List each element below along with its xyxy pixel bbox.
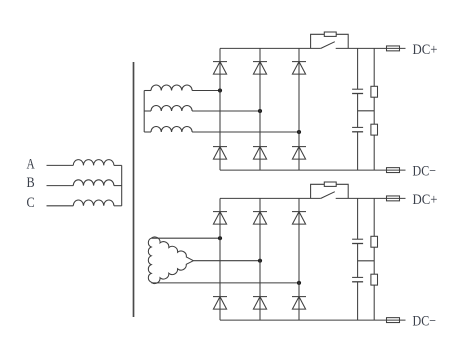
wire phase C lead <box>47 205 74 207</box>
capacitor C2 <box>352 127 363 131</box>
wire secondary winding 1 left stub <box>144 90 151 92</box>
inductor primary winding C <box>73 200 114 206</box>
wire bridge b leg 2 <box>259 198 261 320</box>
terminal upper rectifier DC+ block <box>387 46 400 51</box>
phase label C <box>27 195 35 211</box>
wire primary C to neutral <box>114 205 122 207</box>
capacitor C3 <box>352 239 363 243</box>
terminal upper rectifier DC- block <box>387 168 400 173</box>
wire upper rectifier capacitor branch upper <box>357 48 359 89</box>
node delta phase 3 junction <box>297 281 301 285</box>
wire upper rectifier resistor branch middle <box>373 97 375 124</box>
diode Db6 (lower leg 3) <box>292 297 306 310</box>
switch S2 blade <box>321 192 335 199</box>
wire delta phase 2 to bridge <box>193 260 260 262</box>
switch S1 blade <box>321 42 335 49</box>
wire bridge a leg 3 <box>298 48 300 170</box>
wire secondary winding 3 left stub <box>144 131 151 133</box>
inductor secondary winding L1 <box>151 85 192 91</box>
node delta phase 2 junction <box>258 259 262 263</box>
transformer core <box>133 62 135 317</box>
wire bridge a leg 2 <box>259 48 261 170</box>
diode Db1 (upper leg 1) <box>213 212 227 225</box>
diode Da6 (lower leg 3) <box>292 147 306 160</box>
resistor R6 (balance lower) <box>371 274 378 285</box>
wire upper rectifier capacitor branch middle <box>357 94 359 128</box>
wire lower rectifier precharge loop right <box>336 184 348 198</box>
wire secondary winding 1 to bridge <box>192 90 220 92</box>
resistor R2 (balance upper) <box>371 86 378 97</box>
node secondary phase 3 junction <box>297 130 301 134</box>
wire primary B to neutral <box>114 185 122 187</box>
phase label B <box>27 175 35 191</box>
diode Da2 (upper leg 2) <box>253 62 267 75</box>
svg-text:DC−: DC− <box>413 164 437 180</box>
svg-text:DC−: DC− <box>413 314 437 330</box>
label DC+ (lower rectifier) <box>413 192 438 208</box>
wire lower rectifier capacitor branch upper <box>357 198 359 239</box>
inductor primary winding B <box>73 180 114 186</box>
wire upper rectifier positive bus right <box>336 47 406 49</box>
svg-text:B: B <box>27 175 35 191</box>
terminal lower rectifier DC- block <box>387 318 400 323</box>
wire lower rectifier resistor branch middle <box>373 247 375 274</box>
inductor delta winding top side <box>151 237 193 261</box>
diode Db5 (lower leg 2) <box>253 297 267 310</box>
wire lower rectifier filter midpoint <box>358 260 375 262</box>
resistor R3 (balance lower) <box>371 124 378 135</box>
inductor delta winding left side <box>148 238 151 282</box>
resistor R1 (precharge bypass) <box>324 32 336 36</box>
wire lower rectifier resistor branch upper <box>373 198 375 236</box>
wire upper rectifier precharge loop right <box>336 34 348 48</box>
wire primary neutral bus <box>121 165 123 205</box>
wire phase B lead <box>47 185 74 187</box>
wire secondary winding 2 to bridge <box>192 110 260 112</box>
diode Da3 (upper leg 3) <box>292 62 306 75</box>
diode Db2 (upper leg 2) <box>253 212 267 225</box>
capacitor C4 <box>352 277 363 281</box>
wire upper rectifier filter midpoint <box>358 110 375 112</box>
label DC- (upper rectifier) <box>413 164 437 180</box>
wire upper rectifier positive bus left <box>220 47 321 49</box>
wire bridge b leg 3 <box>298 198 300 320</box>
label DC- (lower rectifier) <box>413 314 437 330</box>
wire phase A lead <box>47 164 74 166</box>
resistor R4 (precharge bypass) <box>324 182 336 186</box>
wire upper rectifier precharge loop left <box>311 34 325 48</box>
diode Db4 (lower leg 1) <box>213 297 227 310</box>
wire secondary winding 2 left stub <box>144 110 151 112</box>
diode Da5 (lower leg 2) <box>253 147 267 160</box>
inductor secondary winding L3 <box>151 127 192 133</box>
resistor R5 (balance upper) <box>371 236 378 247</box>
wire lower rectifier negative bus <box>220 319 406 321</box>
node secondary phase 2 junction <box>258 109 262 113</box>
node secondary phase 1 junction <box>218 88 222 92</box>
diode Da4 (lower leg 1) <box>213 147 227 160</box>
wire upper rectifier resistor branch lower <box>373 135 375 170</box>
wire bridge b leg 1 <box>219 198 221 320</box>
wire delta phase 1 to bridge <box>151 237 220 239</box>
wire upper rectifier negative bus <box>220 169 406 171</box>
diode Da1 (upper leg 1) <box>213 62 227 75</box>
svg-text:A: A <box>27 156 35 172</box>
wire bridge a leg 1 <box>219 48 221 170</box>
svg-text:DC+: DC+ <box>413 42 438 58</box>
wire lower rectifier capacitor branch middle <box>357 244 359 278</box>
capacitor C1 <box>352 89 363 93</box>
wire primary A to neutral <box>114 164 122 166</box>
wire upper rectifier capacitor branch lower <box>357 132 359 170</box>
inductor primary winding A <box>73 160 114 166</box>
wire lower rectifier precharge loop left <box>311 184 325 198</box>
wire lower rectifier positive bus left <box>220 197 321 199</box>
diode Db3 (upper leg 3) <box>292 212 306 225</box>
svg-text:C: C <box>27 195 35 211</box>
wire lower rectifier resistor branch lower <box>373 285 375 320</box>
wire delta phase 3 to bridge <box>151 282 299 284</box>
node delta phase 1 junction <box>218 236 222 240</box>
wire lower rectifier capacitor branch lower <box>357 282 359 320</box>
label DC+ (upper rectifier) <box>413 42 438 58</box>
svg-text:DC+: DC+ <box>413 192 438 208</box>
phase label A <box>27 156 35 172</box>
terminal lower rectifier DC+ block <box>387 196 400 201</box>
wire secondary winding 3 to bridge <box>192 131 299 133</box>
wire lower rectifier positive bus right <box>336 197 406 199</box>
wire secondary star bus <box>143 91 145 133</box>
wire upper rectifier resistor branch upper <box>373 48 375 86</box>
inductor secondary winding L2 <box>151 106 192 112</box>
inductor delta winding bottom side <box>151 261 193 284</box>
